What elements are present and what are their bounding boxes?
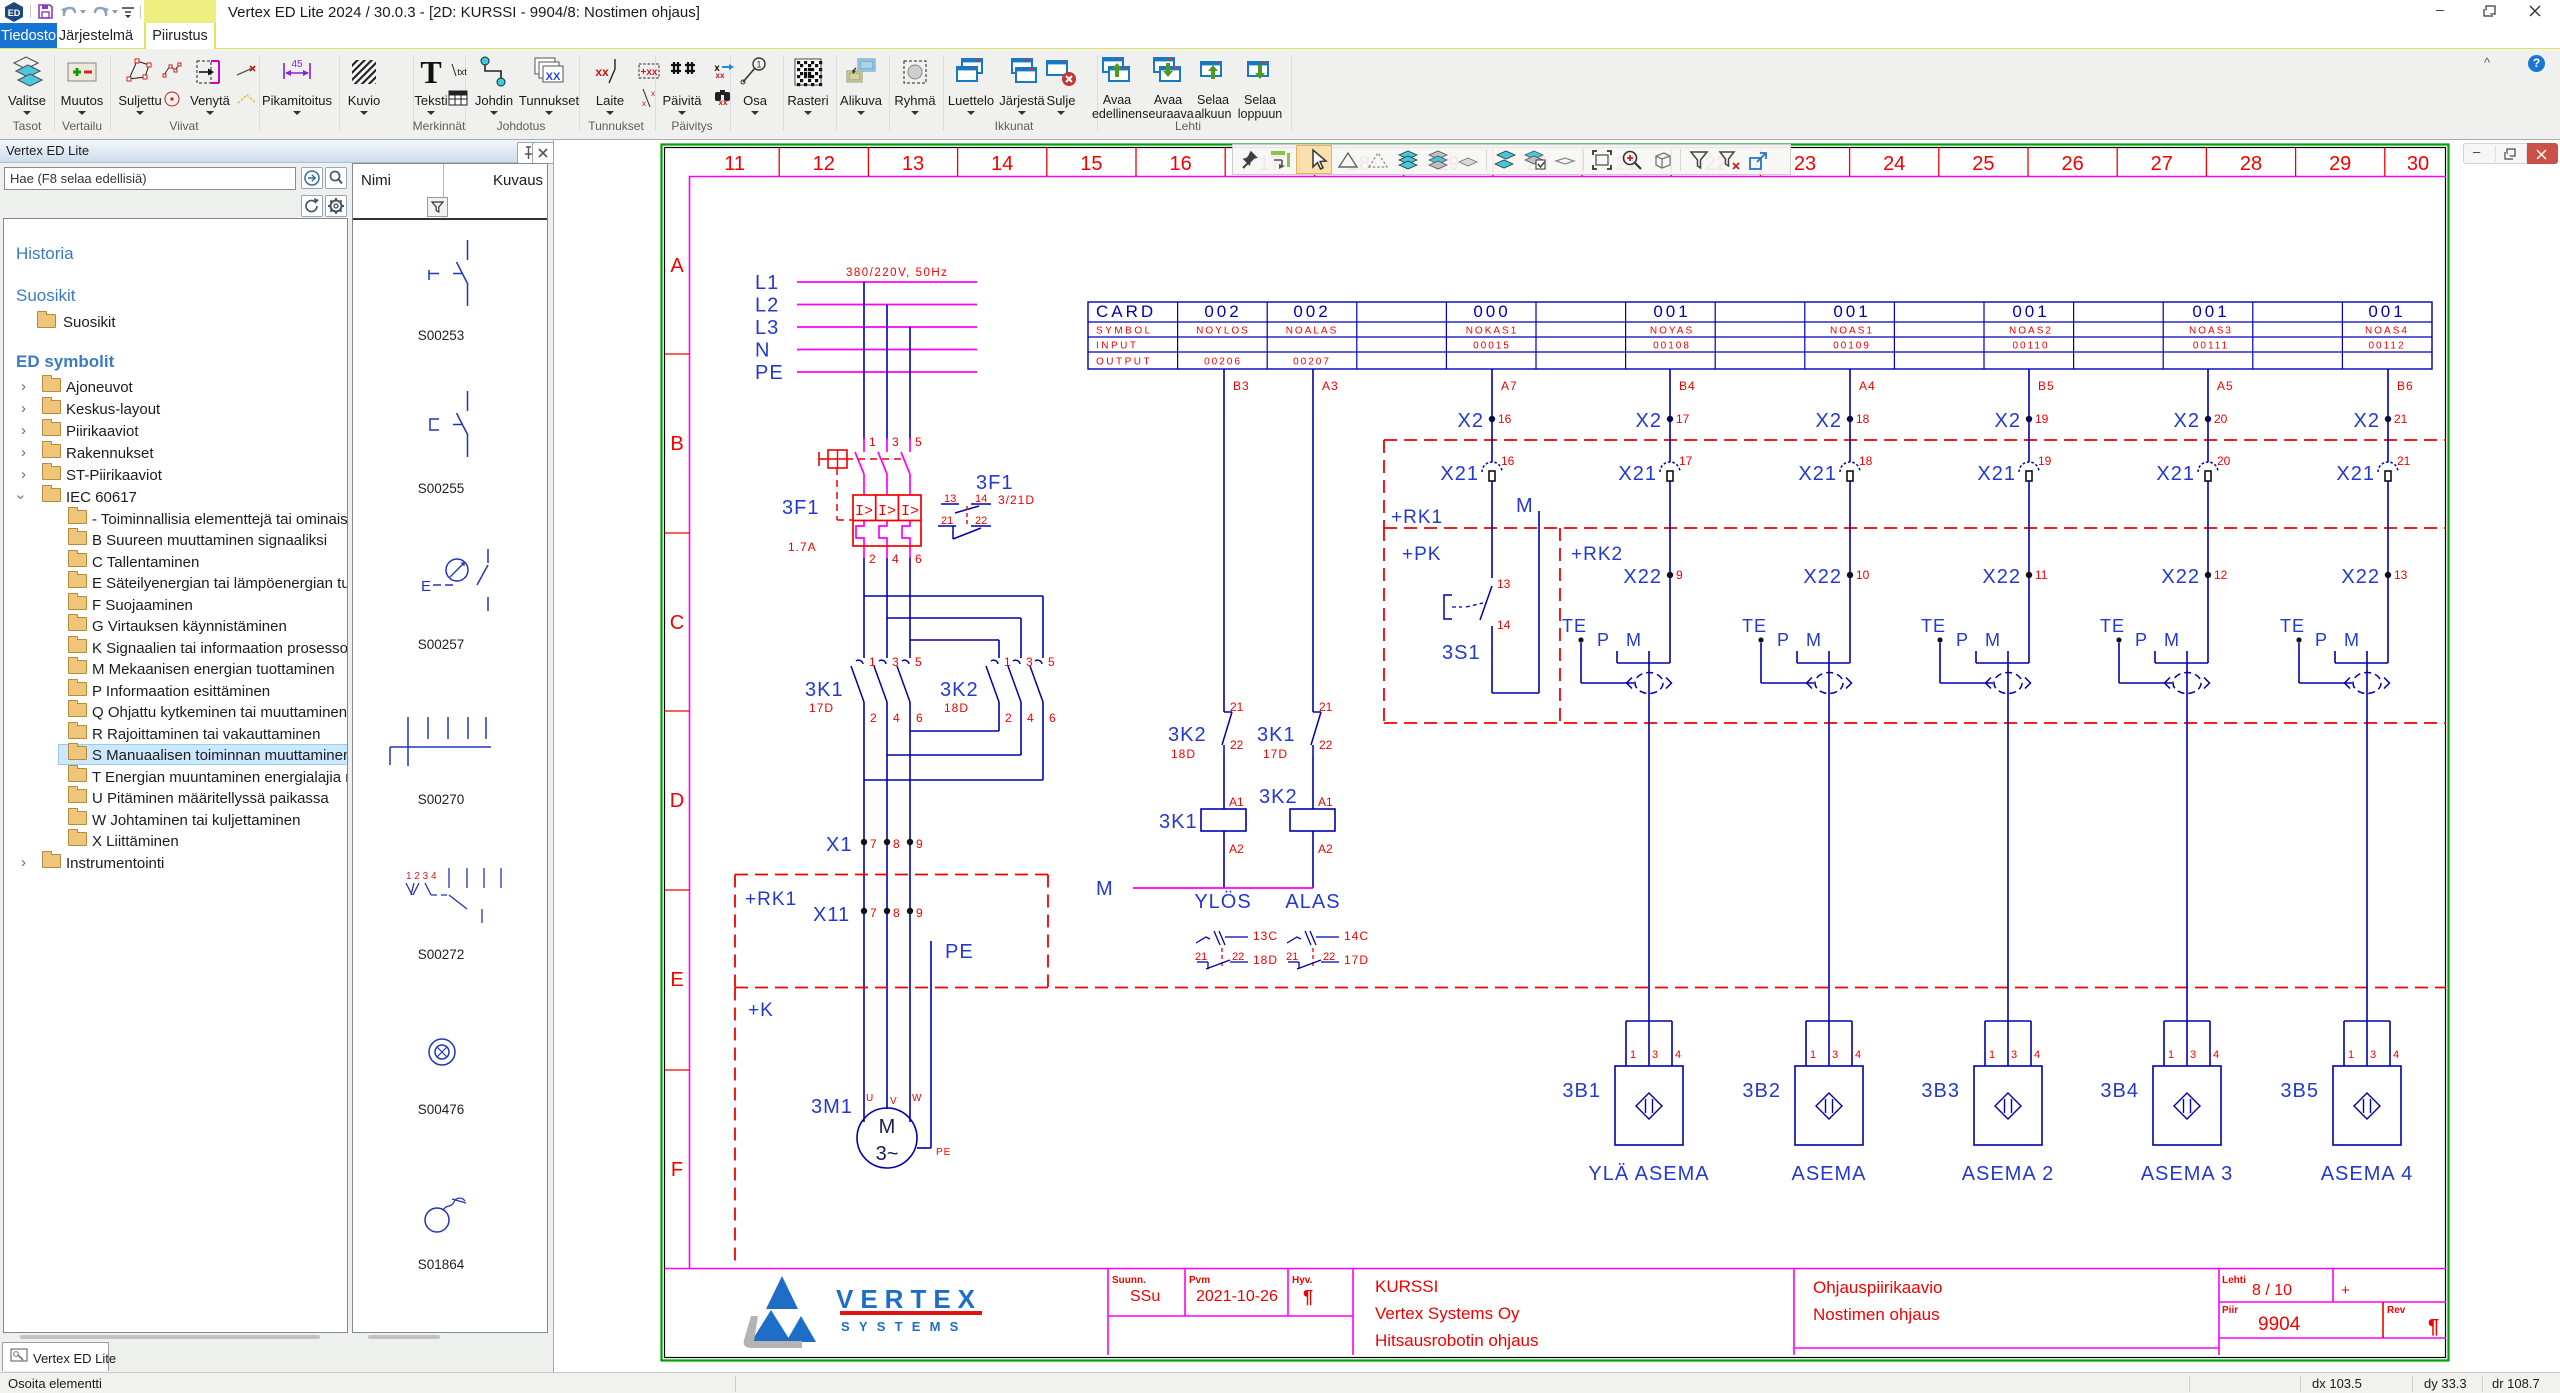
svg-text:4: 4 xyxy=(892,552,899,566)
svg-text:Rev: Rev xyxy=(2387,1305,2406,1316)
svg-text:3K1: 3K1 xyxy=(1159,811,1198,833)
svg-text:D: D xyxy=(670,790,684,812)
svg-text:x: x xyxy=(642,99,646,108)
svg-text:3: 3 xyxy=(1026,655,1033,669)
svg-text:14: 14 xyxy=(975,493,987,505)
3K2 return crossover wires xyxy=(998,702,1000,731)
svg-text:A2: A2 xyxy=(1229,842,1244,856)
svg-text:11: 11 xyxy=(2035,568,2048,582)
svg-text:TE: TE xyxy=(2100,616,2125,636)
drawing sheet black border xyxy=(665,148,2446,1358)
svg-text:3F1: 3F1 xyxy=(976,472,1013,494)
net stub B4 xyxy=(1669,369,1671,416)
svg-text:L3: L3 xyxy=(755,317,779,339)
net stub A4 xyxy=(1849,369,1851,416)
svg-text:3K1: 3K1 xyxy=(1257,724,1296,746)
svg-text:X2: X2 xyxy=(1995,410,2021,432)
svg-text:3B5: 3B5 xyxy=(2280,1080,2319,1102)
wire A3 branch xyxy=(1312,416,1314,712)
svg-text:X21: X21 xyxy=(2156,463,2195,485)
svg-text:17D: 17D xyxy=(1344,953,1369,967)
svg-text:txt: txt xyxy=(457,67,467,77)
svg-text:OUTPUT: OUTPUT xyxy=(1096,357,1152,368)
svg-text:4: 4 xyxy=(2213,1049,2219,1061)
svg-text:18D: 18D xyxy=(944,701,969,715)
net stub A7 xyxy=(1491,369,1493,416)
svg-text:A4: A4 xyxy=(1859,379,1876,393)
breaker release crosshatch box xyxy=(828,450,847,468)
wire B3 branch xyxy=(1223,416,1225,712)
position sensor 3B2 xyxy=(1806,1020,1852,1022)
svg-text:1: 1 xyxy=(2168,1049,2174,1061)
main wires to X1 xyxy=(863,702,865,839)
svg-text:Suunn.: Suunn. xyxy=(1112,1275,1146,1286)
svg-text:B4: B4 xyxy=(1679,379,1696,393)
svg-text:3S1: 3S1 xyxy=(1442,642,1481,664)
svg-text:TE: TE xyxy=(1562,616,1587,636)
wire L2 drop xyxy=(886,305,888,441)
svg-text:X21: X21 xyxy=(1977,463,2016,485)
svg-text:30: 30 xyxy=(2407,153,2429,175)
svg-text:13: 13 xyxy=(902,153,924,175)
svg-text:A5: A5 xyxy=(2217,379,2234,393)
svg-text:22: 22 xyxy=(1230,738,1244,752)
svg-text:21: 21 xyxy=(941,515,953,527)
svg-text:X22: X22 xyxy=(1623,566,1662,588)
svg-text:9: 9 xyxy=(1676,568,1683,582)
NC contact 3K1 21/22 xyxy=(1313,711,1321,713)
svg-text:21: 21 xyxy=(2394,412,2408,426)
svg-text:3/21D: 3/21D xyxy=(998,493,1035,507)
svg-text:Hyv.: Hyv. xyxy=(1292,1275,1313,1286)
svg-text:11: 11 xyxy=(724,153,745,175)
svg-text:8 / 10: 8 / 10 xyxy=(2252,1282,2292,1299)
svg-text:TE: TE xyxy=(1742,616,1767,636)
svg-text:P: P xyxy=(2315,630,2328,650)
svg-text:X22: X22 xyxy=(1803,566,1842,588)
ruler row ticks xyxy=(665,353,690,355)
svg-text:SYSTEMS: SYSTEMS xyxy=(841,1319,968,1334)
svg-text:NOYAS: NOYAS xyxy=(1650,326,1694,337)
svg-text:E: E xyxy=(421,578,431,595)
svg-text:3~: 3~ xyxy=(876,1143,899,1165)
cabinet +RK1 dashed box (machine) xyxy=(735,874,1048,876)
net stub B5 xyxy=(2028,369,2030,416)
svg-text:22: 22 xyxy=(1232,951,1244,963)
svg-text:13: 13 xyxy=(944,493,956,505)
svg-text:U: U xyxy=(866,1093,873,1104)
svg-text:A2: A2 xyxy=(1318,842,1333,856)
svg-text:12: 12 xyxy=(813,153,835,175)
svg-text:ED: ED xyxy=(8,8,21,18)
svg-text:+RK1: +RK1 xyxy=(745,889,797,910)
position sensor 3B5 xyxy=(2344,1020,2390,1022)
svg-text:22: 22 xyxy=(1319,738,1333,752)
svg-text:M: M xyxy=(1985,630,2001,650)
aux contact cross-reference 13C/18D xyxy=(1196,937,1210,943)
svg-text:YLÖS: YLÖS xyxy=(1194,891,1251,913)
svg-text:00111: 00111 xyxy=(2193,341,2229,352)
svg-text:Nostimen ohjaus: Nostimen ohjaus xyxy=(1813,1305,1940,1324)
svg-text:1: 1 xyxy=(756,60,761,70)
svg-text:X21: X21 xyxy=(1618,463,1657,485)
cabinet +PK dashed box xyxy=(1383,528,1385,723)
svg-text:A1: A1 xyxy=(1318,795,1333,809)
svg-text:12: 12 xyxy=(2214,568,2228,582)
svg-text:000: 000 xyxy=(1473,302,1510,321)
svg-text:M: M xyxy=(1806,630,1822,650)
svg-text:X2: X2 xyxy=(1458,410,1484,432)
svg-text:ASEMA: ASEMA xyxy=(1791,1163,1866,1185)
svg-text:1: 1 xyxy=(2348,1049,2354,1061)
wires X11 to motor xyxy=(863,914,865,1122)
svg-text:L2: L2 xyxy=(755,295,779,317)
wire to coils xyxy=(1223,755,1225,809)
svg-text:3B2: 3B2 xyxy=(1742,1080,1781,1102)
svg-text:+: + xyxy=(2341,1282,2350,1299)
svg-text:3F1: 3F1 xyxy=(782,497,819,519)
NC contact 3K2 21/22 xyxy=(1224,711,1232,713)
svg-text:PE: PE xyxy=(936,1147,951,1158)
coil 3K2 xyxy=(1290,809,1335,831)
wires below breaker xyxy=(863,558,865,658)
svg-text:00108: 00108 xyxy=(1653,341,1691,352)
svg-text:17: 17 xyxy=(1679,454,1693,468)
svg-text:21: 21 xyxy=(2397,454,2411,468)
svg-text:3: 3 xyxy=(1652,1049,1658,1061)
svg-text:15: 15 xyxy=(1080,153,1102,175)
svg-text:00109: 00109 xyxy=(1833,341,1871,352)
svg-text:2: 2 xyxy=(870,711,877,725)
coil 3K1 xyxy=(1201,809,1246,831)
svg-text:3: 3 xyxy=(1832,1049,1838,1061)
svg-text:TE: TE xyxy=(2280,616,2305,636)
svg-text:21: 21 xyxy=(1195,951,1207,963)
svg-text:NOALAS: NOALAS xyxy=(1286,326,1339,337)
svg-text:7: 7 xyxy=(870,837,877,851)
svg-text:5: 5 xyxy=(1048,655,1055,669)
svg-text:NOAS3: NOAS3 xyxy=(2189,326,2233,337)
svg-text:13: 13 xyxy=(2394,568,2408,582)
position sensor 3B4 xyxy=(2164,1020,2210,1022)
svg-text:9904: 9904 xyxy=(2258,1314,2301,1335)
svg-text:+K: +K xyxy=(748,1000,774,1021)
svg-text:18D: 18D xyxy=(1171,747,1196,761)
svg-text:001: 001 xyxy=(2368,302,2405,321)
svg-text:001: 001 xyxy=(2192,302,2229,321)
svg-text:B3: B3 xyxy=(1233,379,1250,393)
svg-text:X21: X21 xyxy=(1798,463,1837,485)
svg-text:x: x xyxy=(651,89,655,98)
svg-text:4: 4 xyxy=(2393,1049,2399,1061)
svg-text:T: T xyxy=(420,55,441,89)
svg-text:1.7A: 1.7A xyxy=(788,540,817,554)
svg-text:NOKAS1: NOKAS1 xyxy=(1466,326,1519,337)
aux contact cross-reference 14C/17D xyxy=(1287,937,1301,943)
svg-text:B: B xyxy=(670,433,683,455)
breaker trip unit dashed links xyxy=(846,458,906,460)
svg-text:¶: ¶ xyxy=(1303,1287,1313,1307)
svg-text:00015: 00015 xyxy=(1473,341,1511,352)
svg-text:Hitsausrobotin ohjaus: Hitsausrobotin ohjaus xyxy=(1375,1331,1538,1350)
svg-text:45: 45 xyxy=(291,59,303,70)
svg-text:P: P xyxy=(2135,630,2148,650)
svg-text:27: 27 xyxy=(2151,153,2173,175)
svg-text:14: 14 xyxy=(1497,618,1511,632)
svg-text:29: 29 xyxy=(2329,153,2351,175)
svg-text:NOAS4: NOAS4 xyxy=(2365,326,2409,337)
tap L2 to 3K2 pin3 xyxy=(887,617,1021,619)
svg-text:3M1: 3M1 xyxy=(811,1096,853,1118)
svg-text:19: 19 xyxy=(2038,454,2052,468)
svg-text:3B1: 3B1 xyxy=(1562,1080,1601,1102)
svg-text:13: 13 xyxy=(1497,577,1511,591)
wire L1 drop xyxy=(863,282,865,440)
svg-text:4: 4 xyxy=(2034,1049,2040,1061)
svg-text:M: M xyxy=(1096,878,1114,900)
Vertex logo triangles xyxy=(766,1276,798,1309)
svg-text:380/220V, 50Hz: 380/220V, 50Hz xyxy=(846,267,948,279)
svg-text:A1: A1 xyxy=(1229,795,1244,809)
svg-text:22: 22 xyxy=(975,515,987,527)
svg-text:1 2 3 4: 1 2 3 4 xyxy=(406,871,437,882)
svg-text:TE: TE xyxy=(1921,616,1946,636)
svg-text:P: P xyxy=(1956,630,1969,650)
svg-text:NOAS1: NOAS1 xyxy=(1830,326,1874,337)
svg-text:C: C xyxy=(670,612,684,634)
svg-text:INPUT: INPUT xyxy=(1096,341,1139,352)
svg-text:1: 1 xyxy=(1630,1049,1636,1061)
ruler magenta inner frame xyxy=(690,177,2447,1269)
svg-text:KURSSI: KURSSI xyxy=(1375,1277,1438,1296)
svg-text:+RK2: +RK2 xyxy=(1571,544,1623,565)
svg-text:18: 18 xyxy=(1859,454,1873,468)
svg-text:9: 9 xyxy=(916,837,923,851)
svg-text:YLÄ ASEMA: YLÄ ASEMA xyxy=(1588,1163,1709,1185)
svg-text:E: E xyxy=(670,969,683,991)
svg-text:4: 4 xyxy=(1675,1049,1681,1061)
svg-text:5: 5 xyxy=(915,435,922,449)
svg-text:3K2: 3K2 xyxy=(1168,724,1207,746)
cabinet +RK1 dashed band xyxy=(1384,439,2446,441)
svg-text:7: 7 xyxy=(870,906,877,920)
svg-text:5: 5 xyxy=(915,655,922,669)
svg-text:ASEMA 2: ASEMA 2 xyxy=(1962,1163,2055,1185)
svg-text:X2: X2 xyxy=(1636,410,1662,432)
svg-text:2: 2 xyxy=(1005,711,1012,725)
svg-text:M: M xyxy=(1516,495,1534,517)
M rail xyxy=(1133,887,1313,889)
svg-text:3K1: 3K1 xyxy=(805,679,844,701)
svg-text:X2: X2 xyxy=(2174,410,2200,432)
svg-text:25: 25 xyxy=(1972,153,1994,175)
svg-text:I>: I> xyxy=(878,503,896,520)
svg-text:P: P xyxy=(1597,630,1610,650)
svg-text:+PK: +PK xyxy=(1402,544,1441,565)
svg-text:4: 4 xyxy=(1027,711,1034,725)
breaker I> box xyxy=(853,495,921,546)
svg-text:B5: B5 xyxy=(2038,379,2055,393)
svg-text:ASEMA 4: ASEMA 4 xyxy=(2321,1163,2414,1185)
svg-text:X2: X2 xyxy=(2354,410,2380,432)
svg-text:22: 22 xyxy=(1323,951,1335,963)
svg-text:14C: 14C xyxy=(1344,929,1369,943)
svg-text:B6: B6 xyxy=(2397,379,2414,393)
svg-text:1: 1 xyxy=(1810,1049,1816,1061)
svg-text:ASEMA 3: ASEMA 3 xyxy=(2141,1163,2234,1185)
svg-text:XX: XX xyxy=(546,71,561,83)
svg-text:X22: X22 xyxy=(1982,566,2021,588)
svg-text:X22: X22 xyxy=(2161,566,2200,588)
wire 3S1 return to M xyxy=(1492,692,1539,694)
svg-text:16: 16 xyxy=(1169,153,1191,175)
svg-text:CARD: CARD xyxy=(1096,302,1156,321)
wire L3 drop xyxy=(909,327,911,440)
svg-text:2: 2 xyxy=(869,552,876,566)
svg-text:002: 002 xyxy=(1293,302,1330,321)
svg-text:3: 3 xyxy=(892,435,899,449)
svg-text:21: 21 xyxy=(1286,951,1298,963)
net stub A5 xyxy=(2207,369,2209,416)
svg-text:xx: xx xyxy=(719,98,728,106)
svg-text:24: 24 xyxy=(1883,153,1905,175)
svg-text:N: N xyxy=(755,340,770,362)
svg-text:X21: X21 xyxy=(1440,463,1479,485)
svg-text:1: 1 xyxy=(1989,1049,1995,1061)
svg-text:3K2: 3K2 xyxy=(1259,786,1298,808)
svg-text:M: M xyxy=(2164,630,2180,650)
svg-text:00112: 00112 xyxy=(2368,341,2405,352)
svg-text:16: 16 xyxy=(1501,454,1515,468)
svg-text:26: 26 xyxy=(2061,153,2083,175)
title block magenta lines xyxy=(665,1268,2447,1270)
svg-text:3K2: 3K2 xyxy=(940,679,979,701)
svg-text:A: A xyxy=(670,255,684,277)
svg-text:3B3: 3B3 xyxy=(1921,1080,1960,1102)
svg-text:P: P xyxy=(1777,630,1790,650)
svg-text:A3: A3 xyxy=(1322,379,1339,393)
svg-text:6: 6 xyxy=(916,711,923,725)
svg-text:18: 18 xyxy=(1856,412,1870,426)
svg-text:X11: X11 xyxy=(813,904,850,926)
svg-text:W: W xyxy=(912,1093,922,1104)
svg-text:14: 14 xyxy=(991,153,1013,175)
svg-text:8: 8 xyxy=(893,906,900,920)
ruler column ticks xyxy=(778,148,780,177)
svg-text:¶: ¶ xyxy=(2428,1316,2439,1338)
motor 3M1 xyxy=(857,1108,917,1168)
svg-text:3: 3 xyxy=(2011,1049,2017,1061)
svg-text:6: 6 xyxy=(915,552,922,566)
net stub B3 xyxy=(1223,369,1225,416)
net stub A3 xyxy=(1312,369,1314,416)
svg-text:6: 6 xyxy=(1049,711,1056,725)
svg-text:Piir: Piir xyxy=(2222,1305,2238,1316)
drawing sheet green border xyxy=(662,145,2449,1361)
svg-text:+xx: +xx xyxy=(641,67,658,78)
svg-text:9: 9 xyxy=(916,906,923,920)
cabinet +K dashed box xyxy=(735,987,2446,989)
svg-text:SYMBOL: SYMBOL xyxy=(1096,326,1153,337)
svg-text:M: M xyxy=(879,1116,896,1138)
svg-text:Ohjauspiirikaavio: Ohjauspiirikaavio xyxy=(1813,1278,1942,1297)
svg-text:Lehti: Lehti xyxy=(2222,1275,2246,1286)
svg-text:001: 001 xyxy=(1653,302,1690,321)
svg-text:28: 28 xyxy=(2240,153,2262,175)
tap L3 to 3K2 pin1 xyxy=(910,639,1000,641)
svg-text:X1: X1 xyxy=(826,834,852,856)
svg-text:21: 21 xyxy=(1319,700,1333,714)
svg-text:PE: PE xyxy=(945,941,974,963)
svg-text:F: F xyxy=(671,1159,683,1181)
svg-text:00207: 00207 xyxy=(1293,357,1331,368)
svg-text:V: V xyxy=(890,1096,897,1107)
svg-text:VERTEX: VERTEX xyxy=(836,1284,982,1314)
svg-text:8: 8 xyxy=(893,837,900,851)
svg-text:M: M xyxy=(2344,630,2360,650)
tap L1 to 3K2 pin5 xyxy=(864,595,1043,597)
svg-text:19: 19 xyxy=(2035,412,2049,426)
PLC CARD table xyxy=(1088,302,2432,369)
svg-text:4: 4 xyxy=(893,711,900,725)
svg-text:X21: X21 xyxy=(2336,463,2375,485)
svg-text:X2: X2 xyxy=(1816,410,1842,432)
svg-text:3: 3 xyxy=(2190,1049,2196,1061)
svg-text:PE: PE xyxy=(755,362,784,384)
svg-text:+RK1: +RK1 xyxy=(1391,507,1443,528)
svg-text:3: 3 xyxy=(2370,1049,2376,1061)
svg-text:xx: xx xyxy=(595,65,609,79)
svg-text:ALAS: ALAS xyxy=(1285,891,1340,913)
svg-text:4: 4 xyxy=(1855,1049,1861,1061)
svg-text:001: 001 xyxy=(1833,302,1870,321)
wires coils to M rail xyxy=(1223,831,1225,888)
svg-text:A7: A7 xyxy=(1501,379,1518,393)
svg-text:00206: 00206 xyxy=(1204,357,1242,368)
svg-text:17D: 17D xyxy=(809,701,834,715)
svg-text:00110: 00110 xyxy=(2012,341,2049,352)
svg-text:20: 20 xyxy=(2214,412,2228,426)
svg-text:001: 001 xyxy=(2012,302,2049,321)
svg-text:I>: I> xyxy=(855,503,873,520)
svg-text:10: 10 xyxy=(1856,568,1870,582)
svg-text:17D: 17D xyxy=(1263,747,1288,761)
svg-text:1: 1 xyxy=(1004,655,1011,669)
svg-text:002: 002 xyxy=(1204,302,1241,321)
position sensor 3B3 xyxy=(1985,1020,2031,1022)
svg-text:1: 1 xyxy=(869,435,876,449)
svg-text:Vertex Systems Oy: Vertex Systems Oy xyxy=(1375,1304,1520,1323)
svg-text:13C: 13C xyxy=(1253,929,1278,943)
net stub B6 xyxy=(2387,369,2389,416)
svg-text:16: 16 xyxy=(1498,412,1512,426)
svg-text:18D: 18D xyxy=(1253,953,1278,967)
svg-text:21: 21 xyxy=(1230,700,1244,714)
svg-text:NOAS2: NOAS2 xyxy=(2009,326,2053,337)
svg-text:L1: L1 xyxy=(755,272,779,294)
svg-text:20: 20 xyxy=(2217,454,2231,468)
svg-text:NOYLOS: NOYLOS xyxy=(1196,326,1250,337)
svg-text:I>: I> xyxy=(901,503,919,520)
svg-text:M: M xyxy=(1626,630,1642,650)
svg-text:2021-10-26: 2021-10-26 xyxy=(1196,1288,1278,1305)
svg-text:xx: xx xyxy=(716,71,725,78)
svg-text:17: 17 xyxy=(1676,412,1690,426)
svg-text:23: 23 xyxy=(1794,153,1816,175)
svg-text:3B4: 3B4 xyxy=(2100,1080,2139,1102)
svg-text:X22: X22 xyxy=(2341,566,2380,588)
svg-text:Pvm: Pvm xyxy=(1189,1275,1210,1286)
